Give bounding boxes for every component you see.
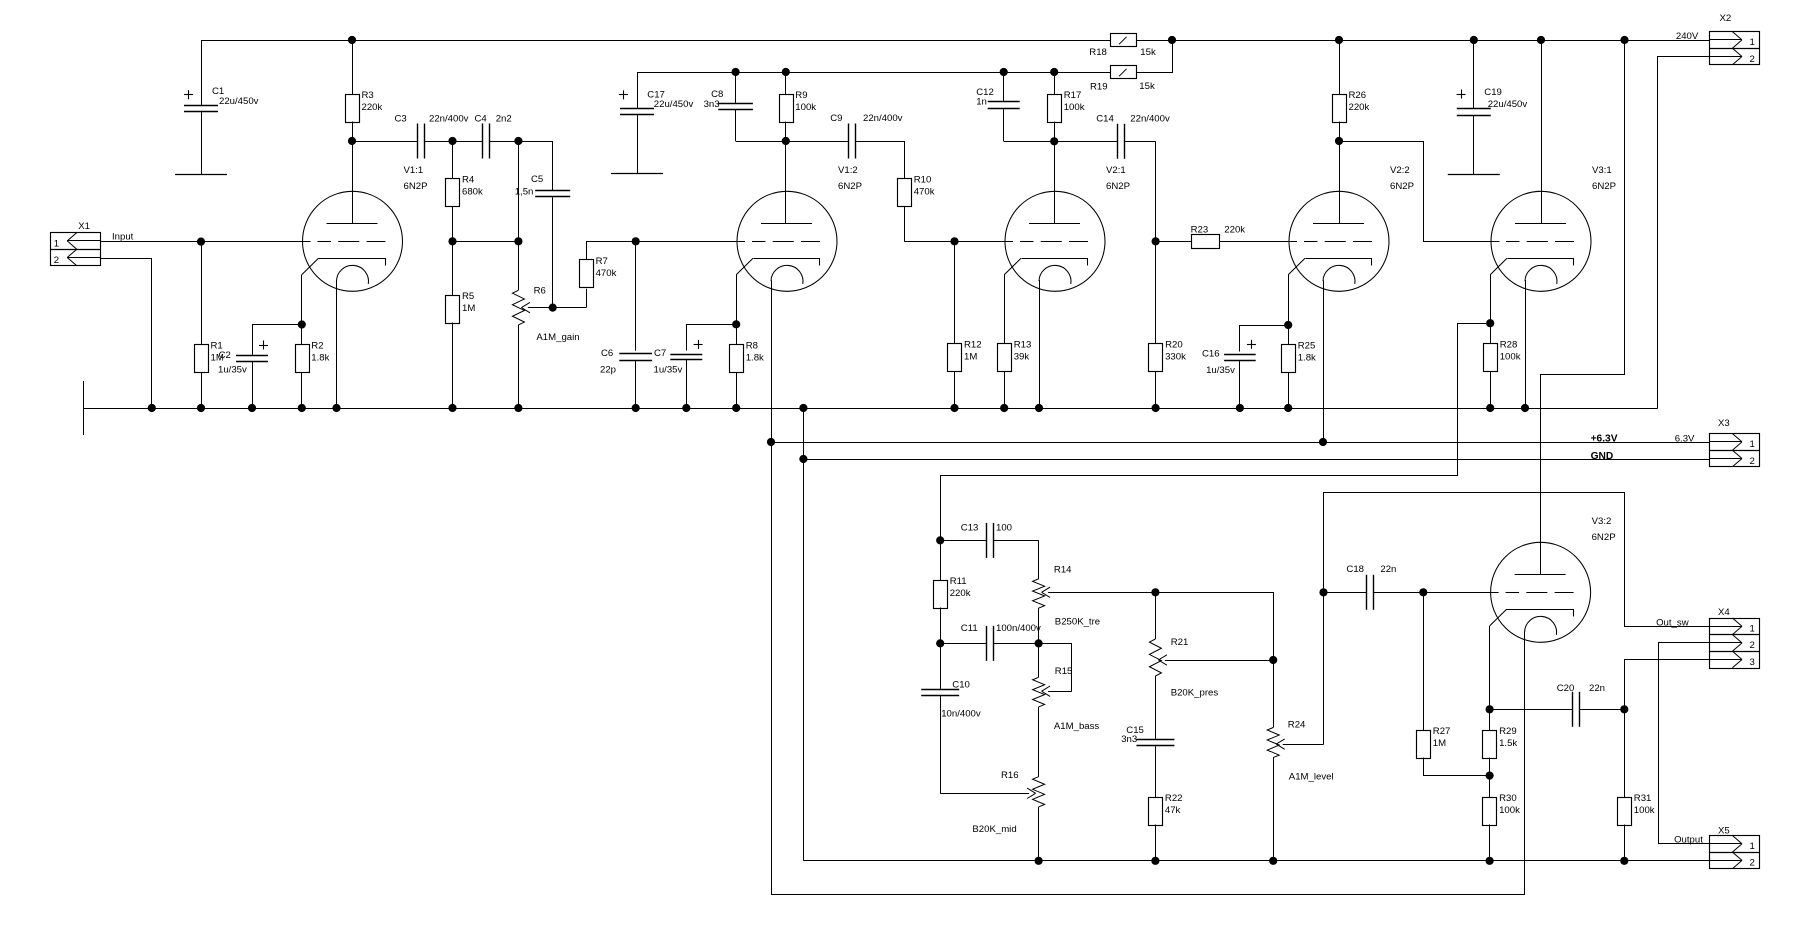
svg-text:R29: R29 (1499, 726, 1517, 737)
svg-text:R31: R31 (1634, 793, 1652, 804)
svg-text:220k: 220k (362, 102, 383, 113)
svg-text:R24: R24 (1288, 720, 1306, 731)
svg-text:220k: 220k (1349, 102, 1370, 113)
svg-text:1,5n: 1,5n (515, 187, 534, 198)
svg-text:22u/450v: 22u/450v (654, 99, 694, 110)
svg-text:V2:1: V2:1 (1106, 165, 1126, 176)
svg-text:V3:1: V3:1 (1592, 165, 1612, 176)
svg-text:R2: R2 (311, 341, 323, 352)
svg-text:R18: R18 (1089, 47, 1107, 58)
svg-text:B20K_pres: B20K_pres (1171, 687, 1219, 698)
svg-text:47k: 47k (1165, 805, 1181, 816)
svg-text:C11: C11 (961, 623, 978, 634)
svg-text:R15: R15 (1055, 666, 1073, 677)
svg-text:R3: R3 (362, 90, 374, 101)
svg-text:R10: R10 (914, 175, 932, 186)
svg-text:1n: 1n (976, 96, 987, 107)
svg-text:100n/400v: 100n/400v (996, 623, 1041, 634)
svg-text:C16: C16 (1202, 349, 1220, 360)
svg-text:3n3: 3n3 (704, 99, 720, 110)
svg-text:1: 1 (1750, 37, 1755, 48)
svg-text:22n/400v: 22n/400v (863, 113, 903, 124)
svg-text:R21: R21 (1171, 637, 1189, 648)
svg-text:2: 2 (1750, 456, 1755, 467)
svg-text:C7: C7 (654, 348, 666, 359)
svg-text:22n/400v: 22n/400v (1130, 114, 1170, 125)
svg-text:C18: C18 (1346, 564, 1364, 575)
svg-text:V3:2: V3:2 (1592, 516, 1612, 527)
svg-text:240V: 240V (1676, 31, 1699, 42)
svg-text:R25: R25 (1298, 341, 1316, 352)
svg-text:C13: C13 (961, 522, 979, 533)
svg-text:R16: R16 (1001, 770, 1019, 781)
svg-text:6N2P: 6N2P (404, 181, 428, 192)
svg-text:6N2P: 6N2P (1592, 532, 1616, 543)
svg-text:1M: 1M (1433, 738, 1446, 749)
svg-text:3: 3 (1750, 657, 1755, 668)
svg-text:1u/35v: 1u/35v (1206, 365, 1235, 376)
svg-text:22u/450v: 22u/450v (1488, 99, 1528, 110)
svg-text:22n: 22n (1380, 564, 1396, 575)
svg-text:R30: R30 (1499, 793, 1517, 804)
svg-text:X3: X3 (1718, 418, 1730, 429)
svg-text:R20: R20 (1165, 340, 1183, 351)
svg-text:R28: R28 (1500, 340, 1518, 351)
svg-text:A1M_level: A1M_level (1289, 771, 1334, 782)
svg-text:X4: X4 (1718, 607, 1730, 618)
svg-text:C5: C5 (531, 174, 543, 185)
svg-text:C2: C2 (219, 350, 231, 361)
svg-text:C19: C19 (1484, 87, 1502, 98)
svg-text:22u/450v: 22u/450v (219, 96, 259, 107)
svg-text:1: 1 (1750, 841, 1755, 852)
svg-text:B20K_mid: B20K_mid (972, 824, 1016, 835)
svg-text:GND: GND (1591, 451, 1614, 462)
svg-text:Out_sw: Out_sw (1656, 617, 1689, 628)
svg-text:6N2P: 6N2P (1390, 181, 1414, 192)
svg-text:R12: R12 (964, 340, 982, 351)
svg-text:R19: R19 (1090, 82, 1108, 93)
svg-text:C3: C3 (395, 114, 407, 125)
svg-text:X1: X1 (78, 221, 90, 232)
svg-text:C4: C4 (475, 114, 488, 125)
svg-text:R8: R8 (746, 341, 758, 352)
svg-text:100k: 100k (1500, 352, 1521, 363)
svg-text:V1:1: V1:1 (404, 165, 424, 176)
svg-text:2: 2 (1750, 640, 1755, 651)
svg-text:680k: 680k (462, 187, 483, 198)
svg-text:15k: 15k (1139, 81, 1155, 92)
svg-text:V1:2: V1:2 (838, 165, 858, 176)
svg-text:100: 100 (996, 522, 1012, 533)
svg-text:C10: C10 (952, 679, 970, 690)
svg-text:R6: R6 (534, 286, 546, 297)
svg-text:100k: 100k (795, 102, 816, 113)
svg-text:R4: R4 (462, 175, 475, 186)
svg-text:R7: R7 (596, 256, 608, 267)
svg-text:100k: 100k (1064, 102, 1085, 113)
svg-text:R11: R11 (950, 576, 967, 587)
svg-text:A1M_bass: A1M_bass (1054, 721, 1100, 732)
svg-text:R22: R22 (1165, 793, 1183, 804)
svg-text:Input: Input (112, 232, 134, 243)
svg-text:B250K_tre: B250K_tre (1055, 617, 1100, 628)
svg-text:C9: C9 (830, 113, 842, 124)
svg-text:2n2: 2n2 (496, 114, 512, 125)
svg-text:1M: 1M (462, 303, 475, 314)
svg-text:1: 1 (1750, 439, 1755, 450)
svg-text:R13: R13 (1014, 340, 1032, 351)
svg-text:39k: 39k (1014, 352, 1030, 363)
svg-text:22p: 22p (600, 364, 616, 375)
svg-text:100k: 100k (1499, 805, 1520, 816)
svg-text:1: 1 (54, 239, 59, 250)
svg-text:330k: 330k (1165, 352, 1186, 363)
svg-text:100k: 100k (1634, 805, 1655, 816)
svg-text:R26: R26 (1349, 90, 1367, 101)
svg-text:1.8k: 1.8k (746, 353, 764, 364)
svg-text:3n3: 3n3 (1121, 734, 1137, 745)
svg-text:A1M_gain: A1M_gain (536, 332, 579, 343)
svg-text:2: 2 (54, 255, 59, 266)
svg-text:C14: C14 (1096, 114, 1114, 125)
svg-text:C6: C6 (601, 348, 613, 359)
svg-text:220k: 220k (950, 588, 971, 599)
svg-text:V2:2: V2:2 (1390, 165, 1410, 176)
svg-text:15k: 15k (1140, 47, 1156, 58)
svg-text:470k: 470k (596, 268, 617, 279)
svg-text:R27: R27 (1433, 726, 1451, 737)
svg-text:C20: C20 (1557, 683, 1575, 694)
svg-text:1: 1 (1750, 624, 1755, 635)
svg-text:1u/35v: 1u/35v (654, 364, 683, 375)
svg-text:R5: R5 (462, 291, 474, 302)
svg-text:1M: 1M (964, 352, 977, 363)
svg-text:X5: X5 (1718, 825, 1730, 836)
svg-text:1.8k: 1.8k (1298, 353, 1316, 364)
svg-text:1u/35v: 1u/35v (218, 364, 247, 375)
svg-text:22n/400v: 22n/400v (429, 114, 469, 125)
svg-text:R14: R14 (1054, 565, 1072, 576)
svg-text:10n/400v: 10n/400v (941, 708, 981, 719)
svg-text:22n: 22n (1589, 683, 1605, 694)
svg-text:2: 2 (1750, 54, 1755, 65)
svg-text:1.5k: 1.5k (1499, 738, 1517, 749)
svg-text:R9: R9 (795, 90, 807, 101)
svg-text:220k: 220k (1224, 225, 1245, 236)
svg-text:6N2P: 6N2P (1592, 181, 1616, 192)
svg-text:R23: R23 (1191, 225, 1209, 236)
svg-text:470k: 470k (914, 187, 935, 198)
svg-text:6N2P: 6N2P (1106, 181, 1130, 192)
svg-text:2: 2 (1750, 858, 1755, 869)
svg-text:X2: X2 (1720, 13, 1732, 24)
svg-text:1.8k: 1.8k (311, 353, 329, 364)
svg-text:6N2P: 6N2P (838, 181, 862, 192)
svg-text:R17: R17 (1064, 90, 1082, 101)
